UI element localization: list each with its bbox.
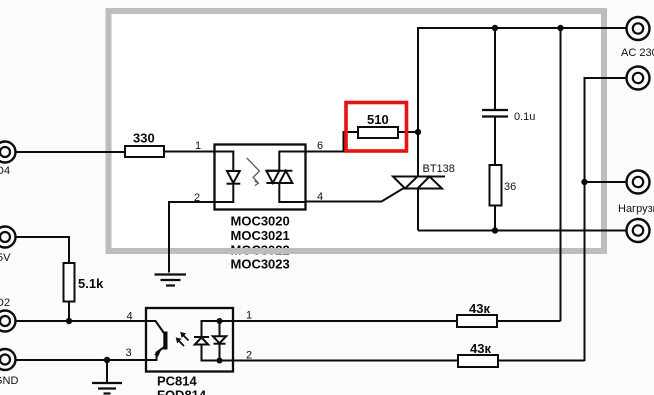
node top rail / snubber: [492, 25, 498, 31]
triac Q1 BT138: [393, 163, 455, 189]
connector AC230 top: [621, 17, 654, 59]
node bottom rail / snubber: [492, 227, 498, 233]
wire D2 to U2 pin4: [16, 320, 147, 322]
U2 light arrows: [182, 334, 189, 341]
wire U1 pin6 to resistor 510: [305, 132, 358, 152]
op-to coupler U1 MOC3020 body: [215, 145, 306, 210]
U1 LED to pin2 wire: [215, 184, 233, 202]
svg-text:1: 1: [195, 140, 201, 152]
svg-text:D2: D2: [0, 297, 10, 309]
wire D4 to resistor 330: [16, 151, 126, 153]
resistor R1 330: [125, 146, 164, 157]
svg-text:3: 3: [126, 347, 132, 359]
svg-text:43к: 43к: [469, 301, 490, 316]
snubber bottom wire: [494, 206, 496, 231]
wire U2 pin1 to 43k: [233, 320, 457, 322]
svg-text:510: 510: [367, 112, 389, 127]
U2 LED rail bottom: [202, 345, 234, 361]
svg-text:BT138: BT138: [423, 163, 455, 175]
svg-text:GND: GND: [0, 375, 19, 387]
wire to ground: [106, 360, 108, 382]
light arrow inside U1: [247, 158, 260, 183]
connector AC230 bottom: [627, 67, 650, 90]
U2 LED right (down): [213, 336, 226, 343]
svg-text:6: 6: [317, 140, 323, 152]
U2 phototransistor collector: [146, 321, 165, 335]
wire U1 pin2 to ground: [169, 202, 215, 273]
U1 triac symbol: [266, 170, 292, 172]
ground for logic side: [92, 383, 122, 394]
connector D4: [0, 142, 16, 178]
svg-text:5.1k: 5.1k: [78, 276, 104, 291]
wire gate from U1 pin4: [305, 189, 403, 202]
U2 LED rail top: [202, 321, 234, 337]
U1 phototriac branch wires: [279, 152, 305, 171]
connector 5V: [0, 227, 16, 265]
red highlight box around 510: [346, 103, 407, 152]
resistor R3 36: [490, 165, 502, 206]
wire triac MT1 down: [417, 189, 419, 231]
svg-text:36: 36: [504, 181, 516, 193]
connector load bottom: [627, 219, 650, 242]
U1 LED D1: [227, 171, 240, 183]
svg-text:4: 4: [127, 311, 133, 323]
wire load top: [585, 181, 627, 183]
resistor R4 5.1k: [64, 263, 75, 302]
wire 43k top branch vertical: [560, 28, 562, 321]
gray band bottom redraw over MOC3022: [228, 248, 298, 254]
node GND branch: [104, 357, 110, 363]
resistor R5 43k top: [457, 315, 497, 327]
U2 LED left (up): [194, 336, 209, 338]
wire 330 to MOC pin1: [164, 151, 215, 153]
U2 emitter with arrow: [146, 347, 165, 361]
node load top / divider: [581, 179, 587, 185]
svg-text:MOC3021: MOC3021: [231, 228, 290, 243]
wire U2 pin2 to 43k: [233, 360, 458, 362]
node U2 rail top: [217, 318, 223, 324]
U2 LED branch right wires: [219, 321, 221, 336]
wire 5.1k to D2 row: [68, 302, 70, 322]
U1 LED branch wire: [215, 152, 233, 172]
mains section gray box: [109, 11, 605, 251]
wire 510 to triac node: [398, 131, 418, 133]
connector load top: [618, 171, 654, 216]
svg-text:MOC3023: MOC3023: [231, 257, 290, 272]
wire bottom rail to load: [418, 230, 626, 232]
connector D2: [0, 297, 16, 332]
wire AC230 bottom to divider: [585, 78, 627, 361]
wire GND to U2 pin3: [16, 359, 147, 361]
capacitor C1 0.1u: [482, 110, 535, 123]
wire 43k bottom to divider: [498, 360, 585, 362]
U2 base bar: [163, 332, 167, 350]
connector GND: [0, 349, 19, 387]
svg-text:MOC3020: MOC3020: [231, 214, 290, 229]
svg-text:Нагрузка: Нагрузка: [618, 203, 654, 215]
node at triac MT2 branch: [415, 129, 421, 135]
svg-text:FOD814: FOD814: [157, 388, 207, 395]
node top rail / 43k branch: [557, 25, 563, 31]
snubber mid wire: [494, 117, 496, 166]
svg-text:D4: D4: [0, 165, 10, 177]
svg-text:1: 1: [246, 310, 252, 322]
svg-text:330: 330: [133, 131, 155, 146]
resistor R6 43k bottom: [458, 355, 498, 367]
svg-text:5V: 5V: [0, 252, 11, 264]
ground for U1 LED: [155, 275, 187, 286]
optocoupler U2 PC814 body: [146, 308, 233, 372]
node U2 rail bottom: [217, 358, 223, 364]
svg-text:PC814: PC814: [157, 374, 198, 389]
snubber wire top: [494, 28, 496, 109]
resistor R2 510: [358, 127, 398, 138]
wire top rail: [418, 28, 626, 177]
wire 5V to resistor 5.1k: [16, 237, 70, 263]
node 5.1k / D2: [66, 318, 72, 324]
svg-text:43к: 43к: [470, 341, 491, 356]
svg-text:AC 230: AC 230: [621, 47, 654, 59]
wire 43k top to divider: [497, 320, 561, 322]
svg-text:0.1u: 0.1u: [514, 111, 535, 123]
